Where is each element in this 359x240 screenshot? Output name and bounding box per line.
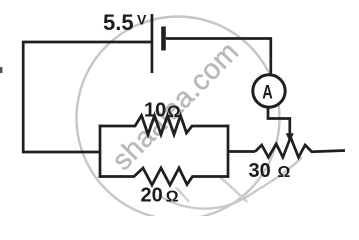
watermark flat bottom swoosh arc (158, 157, 302, 209)
svg-text:5.5: 5.5 (103, 10, 134, 35)
svg-text:V: V (137, 12, 147, 28)
scan artifact mark left edge (0, 67, 2, 73)
watermark faint stroke fragment lower-right (220, 177, 247, 202)
wire left vertical (22, 41, 25, 154)
resistor R2 20 ohm (bottom branch zigzag) (99, 168, 230, 185)
wire ammeter to rheostat wiper (jog) (268, 107, 290, 134)
parallel box right vertical wire (227, 125, 230, 178)
watermark faint stroke fragment lower-left (176, 188, 189, 203)
wiper arrowhead (286, 133, 294, 142)
battery B1 short thick plate (negative) (161, 27, 166, 51)
svg-text:Ω: Ω (166, 189, 179, 206)
battery B1 long plate (positive) (151, 14, 154, 73)
wire bottom-left horizontal to parallel box (22, 151, 100, 154)
wire top-left horizontal (23, 41, 151, 44)
svg-text:Ω: Ω (167, 102, 181, 121)
ammeter A1 circle (253, 75, 285, 107)
wire battery to top-right corner (166, 37, 271, 40)
wire right vertical down to ammeter (269, 37, 272, 76)
wire parallel box to rheostat (228, 150, 255, 153)
svg-text:Ω: Ω (278, 164, 291, 181)
svg-text:10: 10 (144, 100, 166, 122)
svg-text:A: A (262, 83, 273, 104)
watermark circle (77, 17, 280, 220)
svg-text:30: 30 (249, 160, 271, 182)
resistor R1 10 ohm (top branch zigzag) (99, 116, 230, 135)
svg-text:20: 20 (141, 185, 163, 207)
rheostat R3 30 ohm zigzag with tall centre peak (255, 137, 345, 157)
parallel box left vertical wire (99, 125, 102, 178)
